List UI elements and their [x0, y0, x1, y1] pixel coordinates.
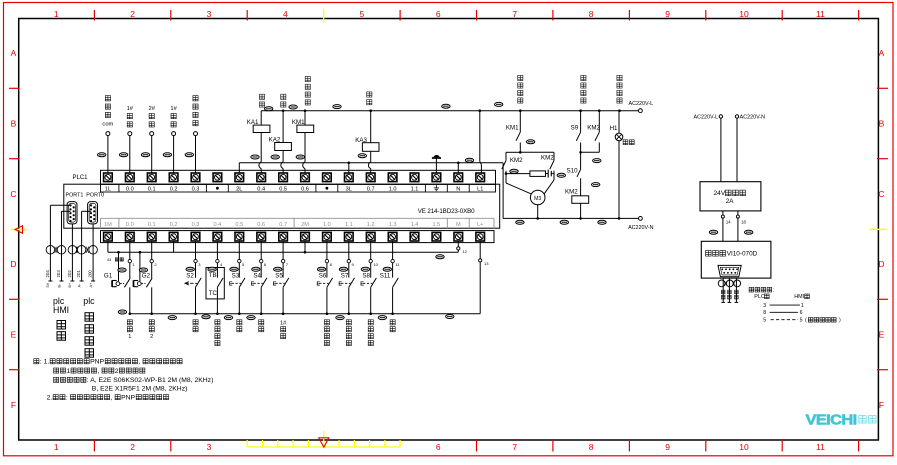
wire label oval on 24V- wire: [745, 230, 753, 234]
PLC1 top terminal row box: [101, 170, 496, 184]
svg-text:C: C: [10, 189, 16, 199]
wire 24V- to HMI: [737, 211, 739, 241]
svg-text:B: B: [11, 119, 17, 129]
svg-text:AC220V-L: AC220V-L: [629, 101, 654, 107]
svg-text:KA3: KA3: [355, 137, 367, 144]
svg-text:: 1.: : 1.: [40, 359, 50, 366]
svg-text:KM1: KM1: [292, 119, 305, 126]
wire HMI cable 1: [722, 278, 724, 302]
svg-text:6: 6: [800, 310, 803, 316]
connector PORT1 (DB9): [67, 202, 77, 224]
svg-text:S11: S11: [380, 273, 391, 280]
svg-text:S10: S10: [567, 168, 579, 175]
wire to left KM2 contact: [506, 151, 520, 153]
node 1#点动: terminal circle: [172, 132, 176, 136]
svg-text:PNP: PNP: [121, 394, 135, 401]
terminal square input 0.5 (bottom row #7): [235, 232, 244, 241]
terminal square output 0.1 (top row #3): [147, 173, 156, 182]
svg-text:1.1: 1.1: [411, 187, 419, 193]
wire switch S5 to common: [282, 287, 284, 313]
svg-text:F: F: [11, 400, 16, 410]
junction S8 on switch common: [369, 312, 372, 315]
svg-text:0.6: 0.6: [257, 222, 265, 228]
wire label oval on AC220V-N rail: [516, 220, 524, 224]
label (vertical): [127, 320, 132, 325]
strip mark: unused dot: [326, 187, 329, 190]
wire label oval on switch common: [118, 310, 126, 314]
svg-text:0.4: 0.4: [214, 222, 222, 228]
terminal square input 0.7 (bottom row #9): [279, 232, 288, 241]
label 断线 (vertical): [390, 320, 395, 325]
junction on AC220V-L bus at x=479.8: [479, 109, 482, 112]
wire input 0.1 from square: [151, 241, 153, 259]
wire 24V+ to HMI: [722, 211, 724, 241]
wire 公共端com terminal to PLC square: [107, 135, 109, 173]
wire input 1.1 from PLC square: [348, 241, 350, 259]
capacitor C1 body: [530, 171, 546, 177]
node terminal circle 3 on input 0.3: [194, 259, 197, 262]
svg-text:1.1: 1.1: [345, 222, 353, 228]
svg-text:2L: 2L: [236, 187, 242, 193]
VFD fault contact box TB/TC: [206, 268, 224, 299]
top terminal label strip: [101, 184, 496, 192]
node terminal circle 9 on input 1.1: [347, 259, 350, 262]
node terminal circle 6 on input 0.6: [260, 259, 263, 262]
wire label oval on 2#运行 wire: [141, 153, 149, 157]
switch TB blade: [217, 278, 223, 287]
svg-text:H1: H1: [610, 125, 618, 132]
svg-text:HMI: HMI: [794, 294, 804, 300]
wire bus to KA1 coil: [260, 111, 262, 125]
wire label oval on switch common: [378, 316, 386, 320]
junction S7 on switch common: [348, 312, 351, 315]
svg-text:TB: TB: [209, 273, 217, 279]
wire label oval on switch common: [202, 315, 210, 319]
svg-text:2: 2: [130, 9, 135, 19]
svg-text:PORT1: PORT1: [66, 193, 84, 199]
terminal square output 0.0 (top row #2): [126, 173, 135, 182]
wire circle to switch S4: [260, 263, 262, 278]
label 电源指示 (vertical): [617, 75, 622, 80]
svg-text:E: E: [360, 282, 364, 288]
node terminal circle 11 on input 1.3: [391, 259, 394, 262]
svg-text:200: 200: [88, 270, 93, 278]
svg-text:0.6: 0.6: [301, 187, 309, 193]
op-amp U1: PLC1 module body VE 214-1BD23-0XB0: [64, 184, 500, 228]
wire circle to contact: [129, 263, 131, 278]
wire label oval on AC220V-N rail: [598, 220, 606, 224]
label 排线启动 (vertical): [305, 76, 310, 81]
wire KM1 coil to PLC output square (hops over L-common): [304, 133, 306, 162]
svg-text:S8: S8: [362, 273, 370, 280]
svg-text:10: 10: [373, 262, 378, 267]
terminal square input 1.3 (bottom row #14): [388, 232, 397, 241]
wire switch S3 to common: [238, 287, 240, 313]
switch S4 blade: [261, 278, 267, 287]
terminal square input 0.3 (bottom row #5): [191, 232, 200, 241]
wire label oval above S3: [230, 267, 238, 271]
svg-text:AC220V-L: AC220V-L: [694, 115, 719, 121]
junction S3 on switch common: [238, 312, 241, 315]
svg-text:5: 5: [800, 318, 803, 324]
wire switch S11 to common: [392, 287, 394, 313]
svg-text:13: 13: [484, 261, 489, 266]
terminal square output 1.1 (top row #15): [410, 173, 419, 182]
svg-text:5: 5: [763, 318, 766, 324]
shield twist symbol on HMI cable: [718, 280, 725, 287]
svg-text:0.7: 0.7: [279, 222, 287, 228]
svg-text:D: D: [878, 259, 884, 269]
wire S10 to KM2 coil: [580, 178, 582, 196]
terminal square input 0.6 (bottom row #8): [257, 232, 266, 241]
node 1#运行: terminal circle: [128, 132, 132, 136]
svg-text:HMI: HMI: [53, 305, 69, 315]
svg-text:3: 3: [207, 9, 212, 19]
wire label oval on capacitor link: [510, 169, 518, 173]
sensor G2 body: [133, 280, 135, 287]
svg-text:4: 4: [283, 9, 288, 19]
svg-text:A: A: [879, 48, 885, 58]
junction capacitor tap on left branch: [505, 172, 508, 175]
node terminal circle on input 0.0: [128, 259, 131, 262]
svg-text:8: 8: [589, 442, 594, 452]
wire label oval above S7: [339, 267, 347, 271]
svg-text:0.2: 0.2: [170, 222, 178, 228]
wire label oval above S2: [186, 267, 194, 271]
wire contact to common: [129, 287, 131, 313]
wire bus to KM1 coil: [304, 111, 306, 125]
label 变频故障 (vertical): [215, 320, 220, 325]
junction on AC220V-L bus at x=283.1: [282, 109, 285, 112]
svg-text:0.0: 0.0: [126, 187, 134, 193]
switch S9 blade: [576, 132, 580, 141]
wire capacitor link: [506, 173, 530, 175]
svg-text:11: 11: [816, 9, 825, 19]
contact KM1 blade: [516, 132, 520, 141]
wire right branch to capacitor and motor: [553, 171, 555, 180]
switch S5 blade: [283, 278, 289, 287]
node AC220V-L feed circle: [719, 115, 722, 118]
svg-text:9: 9: [665, 9, 670, 19]
node terminal circle 4 on input 0.4: [216, 259, 219, 262]
wire KA2 coil to PLC output square (hops over L-common): [282, 151, 284, 162]
relay coil KA1: [253, 125, 270, 132]
wire KA1 coil to PLC output square (hops over L-common): [260, 133, 262, 162]
svg-text:B+: B+: [68, 282, 72, 288]
label 故障复位 (vertical): [324, 320, 329, 325]
svg-text:PNP: PNP: [90, 359, 104, 366]
svg-text:7: 7: [512, 442, 517, 452]
strip mark: ground symbol: [435, 185, 437, 188]
svg-text:0.4: 0.4: [257, 187, 265, 193]
junction TB on switch common: [216, 312, 219, 315]
svg-text:3: 3: [207, 442, 212, 452]
wire input 1.0 from PLC square: [326, 241, 328, 259]
svg-text:KA2: KA2: [269, 137, 281, 144]
contact KM1 (wire from bus): [519, 111, 521, 133]
connector HMI DB9: [718, 265, 741, 276]
wire label oval above S8: [361, 267, 369, 271]
terminal square output N (top row #17): [454, 173, 463, 182]
svg-text:1: 1: [128, 334, 131, 340]
lamp H1 (red): [615, 133, 623, 141]
terminal square input 0.1 (bottom row #3): [147, 232, 156, 241]
svg-text:VI10-070D: VI10-070D: [727, 251, 758, 258]
svg-text:2: 2: [130, 442, 135, 452]
label 启动 (vertical): [237, 320, 242, 325]
svg-text:: A, E2E S06KS02-WP-B1 2M (M8,: : A, E2E S06KS02-WP-B1 2M (M8, 2KHz): [87, 377, 214, 384]
svg-text:3: 3: [763, 303, 766, 309]
label 刹车 (vertical): [281, 94, 286, 99]
relay coil KA2: [275, 143, 292, 151]
wire label oval on N-common: [465, 158, 473, 162]
svg-text:L1: L1: [477, 187, 483, 193]
terminal square input 2M (bottom row #10): [301, 232, 310, 241]
wire label oval under KA3: [358, 154, 366, 158]
svg-text:S5: S5: [275, 273, 283, 280]
arrow actuator of S2: [185, 282, 197, 284]
junction S11 on switch common: [391, 312, 394, 315]
svg-text:B, E2E X1R5F1 2M (M8, 2KHz): B, E2E X1R5F1 2M (M8, 2KHz): [92, 386, 188, 393]
terminal square output L1 (top row #18): [476, 173, 485, 182]
sensor G2 link to contact: [141, 283, 145, 285]
svg-text:B: B: [879, 119, 885, 129]
wire contact to common: [151, 287, 153, 313]
relay coil KM1: [297, 125, 314, 132]
power supply PSU1 24V电源盒 2A: [700, 182, 761, 211]
wire label oval on bus: [333, 105, 341, 109]
terminal square output 0.7 (top row #13): [366, 173, 375, 182]
wire switch S4 to common: [260, 287, 262, 313]
wire label oval above S5: [274, 267, 282, 271]
svg-text:(: (: [805, 318, 807, 324]
wire label oval above S11: [383, 267, 391, 271]
wire input 0.5 from PLC square: [238, 241, 240, 259]
svg-text:E: E: [338, 282, 342, 288]
wire label oval under KA1: [251, 155, 259, 159]
node 2#运行: terminal circle: [150, 132, 154, 136]
terminal square output 1.0 (top row #14): [388, 173, 397, 182]
wire label oval on switch common: [168, 316, 176, 320]
bottom terminal label strip (gray): [101, 217, 495, 219]
ground symbol at PE terminal: [435, 158, 437, 174]
junction on AC220V-L bus at x=580.6: [579, 109, 582, 112]
svg-text:0.1: 0.1: [148, 187, 156, 193]
terminal square output 0.6 (top row #10): [301, 173, 310, 182]
wire label oval under KA2: [271, 155, 279, 159]
switch S2 blade: [196, 278, 202, 287]
notes text block: [34, 359, 39, 364]
svg-text:E: E: [317, 282, 321, 288]
junction on AC220V-L bus at x=370.7: [369, 109, 372, 112]
node 公共端com: terminal circle: [106, 132, 110, 136]
svg-text:0.3: 0.3: [192, 222, 200, 228]
wire circle to contact: [151, 263, 153, 278]
node AC220V-N terminal circle: [639, 217, 643, 221]
svg-text:10: 10: [739, 442, 749, 452]
svg-text:10: 10: [739, 9, 749, 19]
label 计米复位 (vertical): [346, 320, 351, 325]
wire label oval under S10: [592, 183, 600, 187]
junction S4 on switch common: [260, 312, 263, 315]
svg-text:2#: 2#: [148, 106, 155, 112]
wire KM2 aux down and merge: [598, 143, 600, 153]
wire AC220V-N to 24V supply: [736, 118, 738, 182]
svg-text:AC220V-N: AC220V-N: [740, 115, 766, 121]
svg-text:KM2: KM2: [541, 155, 554, 162]
wire label oval on G1 tap: [118, 268, 126, 272]
svg-text:203: 203: [56, 270, 61, 278]
net L+ common: wire L+ down to switch common: [479, 262, 481, 314]
switch S6 blade: [327, 278, 333, 287]
svg-text:1.4: 1.4: [411, 222, 419, 228]
junction S2 on switch common: [194, 312, 197, 315]
svg-text:G2: G2: [142, 273, 151, 280]
terminal square input 0.4 (bottom row #6): [213, 232, 222, 241]
terminal square output PE (top row #16): [432, 173, 441, 182]
label 停止 (vertical): [259, 320, 264, 325]
junction on AC220V-L bus at x=305.0: [304, 109, 307, 112]
svg-text:202: 202: [67, 270, 72, 278]
node AC220V-L terminal circle: [639, 109, 643, 113]
svg-text:com: com: [102, 121, 113, 127]
svg-text:1: 1: [801, 303, 804, 309]
svg-text:VEICHI: VEICHI: [806, 412, 857, 429]
node circle 12 at M terminal: [457, 241, 459, 247]
wire switch S8 to common: [370, 287, 372, 313]
svg-text:0.1: 0.1: [148, 222, 156, 228]
terminal square output unused (top row #6): [213, 173, 222, 182]
node terminal circle on input 0.1: [150, 259, 153, 262]
wire M-common tap to sensor G1: [118, 252, 120, 281]
junction G1 output on common: [129, 312, 132, 315]
wire motor to AC220V-N rail: [537, 205, 539, 219]
switch S11 blade: [393, 278, 399, 287]
wire circle to switch S11: [392, 263, 394, 278]
svg-text:2: 2: [115, 368, 119, 375]
svg-text:S9: S9: [571, 125, 579, 132]
svg-text:M: M: [456, 222, 461, 228]
svg-text:A: A: [11, 48, 17, 58]
junction G2 supply tap: [139, 251, 142, 254]
wire 2M stub: [304, 241, 306, 252]
terminal square input 1M (bottom row #1): [104, 232, 113, 241]
svg-text:F: F: [879, 400, 884, 410]
junction on AC220V-L bus at x=599.3: [598, 109, 601, 112]
svg-text:PLC: PLC: [754, 294, 765, 300]
wire 0.2 stub: [173, 241, 175, 252]
svg-text:1.0: 1.0: [323, 222, 331, 228]
wire 2#运行 terminal to PLC square: [151, 135, 153, 173]
svg-text:S2: S2: [186, 273, 194, 280]
contact KM2 aux blade: [595, 132, 599, 141]
svg-text:0.3: 0.3: [192, 187, 200, 193]
label 退火 (vertical): [367, 92, 372, 97]
wire label oval on G2 tap: [139, 268, 147, 272]
label 排线换向 (vertical): [581, 75, 586, 80]
wire PORT1 pin to HMI comm (wire 1): [50, 204, 69, 206]
node 故障复位: terminal circle: [194, 132, 198, 136]
label 红色: [623, 140, 628, 145]
svg-text:5: 5: [360, 9, 365, 19]
switch S10 blade: [577, 169, 581, 177]
terminal square input 1.2 (bottom row #13): [366, 232, 375, 241]
sensor G1 link to contact: [120, 283, 124, 285]
wire label oval on switch common: [224, 316, 232, 320]
svg-text:1L: 1L: [105, 187, 111, 193]
svg-text:0.5: 0.5: [235, 222, 243, 228]
PLC1 bottom terminal row box: [101, 231, 495, 243]
terminal square output 0.4 (top row #8): [257, 173, 266, 182]
svg-text:,: ,: [111, 394, 113, 401]
net N-common wire 2L-3L-N to rail: [239, 162, 503, 164]
wire label oval on bus: [289, 105, 297, 109]
svg-text:1: 1: [54, 9, 59, 19]
svg-text:6: 6: [436, 442, 441, 452]
svg-text:D: D: [10, 259, 16, 269]
svg-text:204: 204: [45, 270, 50, 278]
wire to right KM2 contact: [520, 151, 554, 153]
wire input 0.7 from PLC square: [282, 241, 284, 259]
motor M3: [530, 190, 545, 205]
wire switch S6 to common: [326, 287, 328, 313]
terminal square input 0.0 (bottom row #2): [126, 232, 135, 241]
svg-text:8: 8: [589, 9, 594, 19]
svg-text:2.: 2.: [47, 394, 53, 401]
wire label oval on bus: [495, 102, 503, 106]
svg-text:9: 9: [665, 442, 670, 452]
wire left branch down to motor: [505, 171, 507, 183]
wire label oval above S6: [317, 267, 325, 271]
svg-text:E: E: [879, 330, 885, 340]
junction 2M on M common: [304, 251, 307, 254]
svg-text:C: C: [878, 189, 884, 199]
wire circle to switch S8: [370, 263, 372, 278]
terminal square output 0.3 (top row #5): [191, 173, 200, 182]
wire HMI cable 2: [728, 278, 730, 302]
junction on AC220V-L bus at x=619.5: [618, 109, 621, 112]
wire HMI cable 3: [735, 278, 737, 302]
wire label oval on 1#点动 wire: [163, 153, 171, 157]
svg-text:S7: S7: [341, 273, 349, 280]
svg-text:KM2: KM2: [510, 157, 523, 164]
svg-text:1: 1: [66, 368, 70, 375]
wire PORT1 pin to HMI comm (wire 2): [62, 210, 71, 212]
svg-text:plc: plc: [83, 296, 95, 306]
label 急停 (vertical): [259, 94, 264, 99]
wire label oval on 24V+ wire: [709, 230, 717, 234]
wire circle to switch S2: [195, 263, 197, 278]
node circle 13 at L+ terminal: [479, 241, 481, 259]
wire switch S7 to common: [348, 287, 350, 313]
wire label oval on bus: [265, 107, 273, 111]
svg-text:KM2: KM2: [565, 188, 578, 195]
terminal square input M (bottom row #17): [454, 232, 463, 241]
wire label oval on switch common: [446, 315, 454, 319]
wire input 1.3 from PLC square: [392, 241, 394, 259]
svg-text:0.7: 0.7: [367, 187, 375, 193]
svg-text:,: ,: [138, 359, 140, 366]
node AC220V-N feed circle: [735, 115, 738, 118]
svg-text:KM2: KM2: [587, 125, 600, 132]
svg-text:1.5: 1.5: [433, 222, 441, 228]
wire label oval above TB: [208, 267, 216, 271]
svg-text:PORT0: PORT0: [86, 193, 104, 199]
svg-text:,: ,: [97, 368, 99, 375]
switch S3 blade: [239, 278, 245, 287]
wire lamp to rail: [618, 141, 620, 219]
svg-text:1#: 1#: [280, 320, 287, 326]
